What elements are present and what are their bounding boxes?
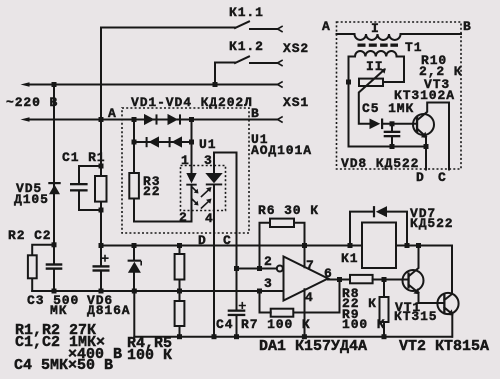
svg-text:U1: U1 [199, 137, 216, 152]
svg-text:К1: К1 [341, 251, 358, 266]
svg-text:DA1 К157УД4А: DA1 К157УД4А [259, 338, 367, 355]
svg-text:VD1-VD4 КД202Л: VD1-VD4 КД202Л [131, 95, 253, 110]
svg-text:C1 R1: C1 R1 [62, 150, 106, 165]
svg-text:4: 4 [305, 290, 314, 305]
svg-text:МК: МК [50, 303, 67, 318]
svg-text:I: I [371, 21, 380, 36]
svg-text:1: 1 [181, 153, 190, 168]
svg-text:С5 1МК: С5 1МК [362, 101, 414, 116]
svg-text:3: 3 [204, 153, 213, 168]
svg-text:3: 3 [264, 276, 273, 291]
svg-text:VT2 КТ815А: VT2 КТ815А [399, 338, 489, 355]
svg-text:XS2: XS2 [283, 41, 309, 56]
svg-text:XS1: XS1 [283, 95, 309, 110]
svg-text:100 К: 100 К [127, 347, 172, 364]
svg-text:II: II [366, 59, 383, 74]
svg-text:~220 В: ~220 В [6, 95, 58, 110]
svg-text:Д105: Д105 [14, 192, 49, 207]
svg-text:А: А [108, 106, 117, 121]
svg-text:7: 7 [306, 258, 315, 273]
svg-text:22: 22 [143, 184, 160, 199]
svg-text:100 К: 100 К [342, 317, 386, 332]
svg-text:C: C [438, 170, 447, 185]
svg-text:Д816А: Д816А [87, 303, 131, 318]
svg-text:В: В [463, 19, 472, 34]
svg-text:C4: C4 [216, 317, 233, 332]
svg-text:В: В [251, 106, 260, 121]
svg-text:R2 C2: R2 C2 [8, 228, 52, 243]
svg-text:R6 30 К: R6 30 К [258, 203, 319, 218]
svg-text:АОД101А: АОД101А [251, 143, 312, 158]
svg-text:К1.2: К1.2 [229, 39, 264, 54]
svg-text:КТ315: КТ315 [394, 309, 438, 324]
svg-text:К1.1: К1.1 [229, 5, 264, 20]
svg-text:T1: T1 [405, 40, 422, 55]
svg-text:VD8 КД522: VD8 КД522 [341, 156, 419, 171]
svg-text:2: 2 [179, 210, 188, 225]
svg-text:R7 100 К: R7 100 К [241, 317, 311, 332]
svg-text:D: D [198, 233, 207, 248]
svg-text:А: А [322, 19, 331, 34]
svg-text:2: 2 [264, 254, 273, 269]
svg-text:C4 5МК×50 В: C4 5МК×50 В [14, 357, 113, 374]
svg-text:D: D [416, 170, 425, 185]
svg-text:C: C [223, 233, 232, 248]
svg-text:4: 4 [205, 211, 214, 226]
svg-text:КД522: КД522 [410, 216, 454, 231]
svg-text:6: 6 [324, 266, 333, 281]
